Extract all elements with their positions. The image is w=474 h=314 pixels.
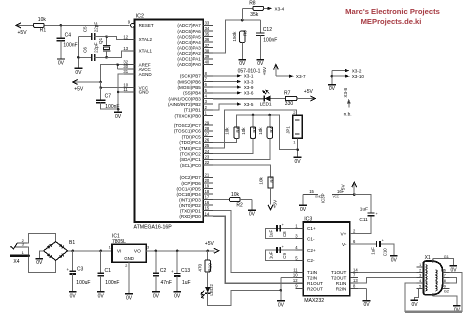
- svg-text:0V: 0V: [98, 293, 105, 299]
- capacitor C6 22pF: [78, 42, 106, 61]
- wire XTAL1 net to pin 13: [107, 51, 124, 58]
- svg-text:C3: C3: [77, 267, 84, 273]
- svg-text:n.b.: n.b.: [344, 111, 352, 117]
- svg-text:+: +: [67, 267, 70, 272]
- svg-text:0V: 0V: [75, 70, 82, 76]
- svg-text:0V: 0V: [278, 303, 285, 309]
- svg-text:22pF: 22pF: [94, 22, 99, 33]
- bridge rectifier B1: [44, 240, 76, 260]
- svg-text:GND: GND: [139, 90, 150, 95]
- wire MAX232 R1IN to X1 pin 3: [358, 278, 417, 284]
- capacitor C12 100nF: [256, 20, 277, 60]
- diode D4 bridge bottom-right: [59, 253, 64, 258]
- svg-text:9: 9: [444, 285, 446, 289]
- svg-text:4: 4: [419, 279, 421, 283]
- svg-text:0V: 0V: [300, 207, 307, 213]
- svg-text:T2OUT: T2OUT: [331, 276, 347, 281]
- svg-text:12: 12: [293, 278, 298, 283]
- svg-text:IC3P: IC3P: [320, 193, 325, 203]
- svg-text:39: 39: [205, 54, 210, 59]
- svg-text:JP1: JP1: [285, 126, 290, 134]
- svg-text:R2IN: R2IN: [336, 287, 347, 292]
- svg-text:C4: C4: [65, 32, 72, 38]
- node reset/C4 junction: [60, 24, 63, 27]
- capacitor C10 1uF (V-): [350, 239, 394, 257]
- svg-text:0V: 0V: [257, 61, 264, 67]
- capacitor C8 1uF (C1+/C1-): [266, 223, 296, 238]
- svg-text:8: 8: [444, 279, 446, 283]
- resistor R4 10k: [213, 115, 274, 159]
- wire X1 pin 5 to ground: [414, 289, 418, 301]
- svg-text:1uF: 1uF: [269, 251, 274, 259]
- svg-text:(TOSC2)PC7: (TOSC2)PC7: [174, 123, 201, 128]
- node XTAL1 net junction: [105, 56, 108, 59]
- svg-text:25: 25: [205, 143, 210, 148]
- svg-text:470: 470: [198, 263, 203, 271]
- svg-text:100uF: 100uF: [76, 280, 90, 286]
- svg-text:0V: 0V: [70, 293, 77, 299]
- svg-text:40: 40: [205, 59, 210, 64]
- wire G2 shield to ground: [433, 290, 457, 306]
- svg-text:V-: V-: [342, 242, 347, 247]
- svg-text:0V: 0V: [239, 61, 246, 67]
- X1 pin stubs and numbers: [417, 263, 450, 289]
- svg-text:R8: R8: [249, 0, 256, 6]
- title Marc's Electronic Projects: [345, 7, 440, 26]
- svg-text:(AIN0/INT2)PB2: (AIN0/INT2)PB2: [168, 102, 201, 107]
- wire X1 pin 4 to bottom ground bus: [405, 283, 417, 312]
- microcontroller IC2 ATMEGA16-16P: [134, 14, 204, 231]
- connector X4 power jack: [10, 238, 28, 265]
- wire PB4 to X3-6: [213, 91, 254, 96]
- svg-text:10k: 10k: [258, 127, 263, 135]
- svg-text:(TXD)PD1: (TXD)PD1: [180, 208, 201, 213]
- svg-text:Marc's Electronic Projects: Marc's Electronic Projects: [345, 7, 440, 16]
- capacitor C2 47nF: [153, 251, 172, 292]
- svg-text:X3-7: X3-7: [296, 74, 306, 79]
- svg-text:R4: R4: [269, 126, 274, 132]
- node X3-4 connector arrow: [268, 6, 285, 11]
- svg-text:10k: 10k: [231, 192, 240, 198]
- ground 0V below C7: [114, 112, 122, 120]
- svg-text:14: 14: [353, 267, 358, 272]
- svg-text:0V: 0V: [295, 159, 302, 165]
- svg-text:10k: 10k: [38, 17, 47, 23]
- svg-text:V+: V+: [341, 231, 347, 236]
- svg-text:(SDA)PC1: (SDA)PC1: [180, 157, 202, 162]
- IC3 right pin stubs with numbers: [350, 229, 358, 289]
- wire T2IN to ground node: [280, 278, 296, 301]
- svg-text:+5V: +5V: [272, 199, 278, 208]
- ground 0V at IC3 pin 15: [299, 205, 307, 213]
- capacitor C13 1uF: [171, 251, 191, 292]
- svg-text:G2: G2: [444, 290, 449, 294]
- svg-text:(TMS)PC3: (TMS)PC3: [179, 146, 201, 151]
- svg-text:14: 14: [205, 211, 210, 216]
- svg-text:XTAL1: XTAL1: [139, 49, 153, 54]
- svg-text:150k: 150k: [232, 31, 237, 42]
- svg-text:X4: X4: [13, 259, 19, 265]
- svg-text:11: 11: [293, 267, 298, 272]
- svg-text:+5V: +5V: [205, 241, 215, 247]
- svg-text:(SCL)PC0: (SCL)PC0: [180, 163, 201, 168]
- node X3-8 not connected: [343, 87, 352, 117]
- svg-text:GND: GND: [124, 256, 134, 261]
- svg-text:+5V: +5V: [304, 89, 314, 95]
- svg-text:B1: B1: [69, 240, 75, 246]
- svg-text:C2: C2: [160, 268, 167, 274]
- wire X4 tip to bridge AC1: [27, 233, 56, 243]
- svg-text:37: 37: [205, 43, 210, 48]
- resistor R1 10k: [34, 17, 130, 33]
- svg-text:(MISO)PB6: (MISO)PB6: [178, 79, 202, 84]
- svg-text:+5V: +5V: [18, 30, 28, 36]
- svg-text:(ADC1)PA1: (ADC1)PA1: [177, 57, 201, 62]
- svg-text:(AIN1/OC0)PB3: (AIN1/OC0)PB3: [168, 96, 201, 101]
- svg-text:0V: 0V: [126, 295, 133, 301]
- svg-text:X1: X1: [425, 255, 431, 261]
- svg-text:1: 1: [109, 246, 111, 250]
- ground 0V below R9: [238, 60, 246, 68]
- svg-text:7805L: 7805L: [112, 239, 126, 245]
- svg-text:2: 2: [419, 268, 421, 272]
- svg-text:36: 36: [205, 37, 210, 42]
- svg-text:VCC: VCC: [333, 194, 340, 198]
- svg-text:7: 7: [444, 274, 446, 278]
- resistor R10 470: [198, 251, 213, 287]
- svg-text:26: 26: [205, 137, 210, 142]
- svg-text:X3-4: X3-4: [275, 6, 285, 11]
- wire IC3 GND pin 15 to ground: [302, 195, 304, 206]
- svg-text:VI: VI: [117, 249, 122, 255]
- svg-text:(OC2)PD7: (OC2)PD7: [180, 175, 202, 180]
- power +5V supply arrow at IC3 VCC: [341, 182, 357, 196]
- svg-text:18: 18: [205, 189, 210, 194]
- svg-text:(OC1B)PD4: (OC1B)PD4: [177, 192, 202, 197]
- resistor R8 35k: [242, 0, 267, 20]
- svg-text:+5V: +5V: [341, 184, 347, 193]
- svg-text:R7: R7: [284, 91, 291, 97]
- svg-text:(TCK)PC2: (TCK)PC2: [180, 152, 201, 157]
- svg-text:24: 24: [205, 149, 210, 154]
- svg-text:+5V: +5V: [262, 66, 268, 75]
- svg-text:10: 10: [293, 273, 298, 278]
- svg-text:33: 33: [205, 21, 210, 26]
- svg-text:(RXD)PD0: (RXD)PD0: [179, 214, 201, 219]
- capacitor C7 100nF: [96, 88, 120, 110]
- capacitor C4 100nF: [57, 25, 78, 59]
- svg-text:1uF: 1uF: [182, 280, 191, 286]
- svg-text:R2: R2: [236, 202, 243, 208]
- svg-text:35k: 35k: [250, 12, 259, 18]
- wire LED2 return to T2IN ground node: [208, 290, 281, 305]
- svg-text:(SS)PB4: (SS)PB4: [183, 91, 201, 96]
- svg-text:10k: 10k: [259, 176, 264, 184]
- svg-text:19: 19: [205, 184, 210, 189]
- svg-text:X3-8: X3-8: [343, 87, 348, 97]
- svg-text:C1+: C1+: [307, 226, 316, 231]
- svg-text:1uF: 1uF: [360, 207, 368, 213]
- IC2 RESET pin 9 inversion bubble: [128, 19, 135, 27]
- wire MAX232 R2IN to ground: [358, 289, 367, 301]
- svg-text:C1: C1: [105, 268, 112, 274]
- svg-text:(TDO)PC4: (TDO)PC4: [179, 140, 201, 145]
- wire regulated +5V rail: [146, 241, 219, 253]
- svg-text:11: 11: [123, 87, 128, 92]
- wire +5V to X3-7: [276, 74, 306, 79]
- svg-text:34: 34: [205, 26, 210, 31]
- svg-text:R9: R9: [243, 30, 248, 36]
- ground 0V below JP1: [294, 157, 302, 165]
- resistor R5 10k: [213, 115, 257, 154]
- svg-text:LED2: LED2: [209, 284, 214, 296]
- svg-text:330: 330: [285, 101, 294, 107]
- ground 0V below C4: [57, 59, 65, 67]
- svg-text:(ADC2)PA2: (ADC2)PA2: [177, 51, 201, 56]
- ground 0V below C1: [97, 292, 105, 300]
- svg-text:T1IN: T1IN: [307, 270, 317, 275]
- svg-text:R6: R6: [236, 126, 241, 132]
- svg-text:(ADC7)PA7: (ADC7)PA7: [177, 23, 201, 28]
- wire bridge minus to ground: [39, 251, 43, 259]
- IC3 left pin stubs with numbers: [293, 223, 303, 288]
- svg-text:5: 5: [419, 285, 421, 289]
- svg-text:10k: 10k: [241, 127, 246, 135]
- resistor R2 10k on INT1: [213, 192, 252, 210]
- svg-text:C8: C8: [282, 231, 287, 237]
- ground 0V at bridge: [35, 259, 43, 267]
- svg-text:1: 1: [419, 263, 421, 267]
- ground 0V below oscillator caps: [75, 68, 83, 76]
- svg-text:C12: C12: [263, 27, 272, 33]
- svg-text:VO: VO: [134, 249, 141, 255]
- wire +5V to VCC pin 10: [99, 82, 124, 89]
- svg-text:(T1)PB1: (T1)PB1: [184, 108, 201, 113]
- svg-text:27: 27: [205, 132, 210, 137]
- svg-text:ATMEGA16-16P: ATMEGA16-16P: [134, 225, 173, 231]
- wire PB6 to X3-3: [213, 79, 254, 84]
- svg-text:0V: 0V: [451, 267, 458, 273]
- svg-text:10k: 10k: [225, 127, 230, 135]
- svg-text:15: 15: [205, 206, 210, 211]
- wire +5V to AREF and AVCC: [99, 63, 124, 83]
- svg-text:X3-2: X3-2: [352, 69, 362, 74]
- svg-text:3: 3: [147, 246, 149, 250]
- svg-text:0V: 0V: [249, 212, 256, 218]
- svg-text:AGND: AGND: [139, 72, 153, 77]
- svg-text:(ADC6)PA6: (ADC6)PA6: [177, 29, 201, 34]
- svg-text:0V: 0V: [412, 302, 419, 308]
- ground 0V at G2: [453, 306, 461, 313]
- voltage regulator IC1 7805L: [109, 234, 150, 294]
- svg-text:1uF: 1uF: [371, 247, 376, 255]
- svg-text:X3-1: X3-1: [244, 74, 254, 79]
- svg-text:R3: R3: [270, 176, 275, 182]
- svg-text:C1-: C1-: [307, 236, 315, 241]
- svg-text:T2IN: T2IN: [307, 276, 317, 281]
- svg-text:MEProjects.de.ki: MEProjects.de.ki: [361, 17, 422, 26]
- svg-text:RESET: RESET: [139, 23, 154, 28]
- capacitor C3 100uF: [67, 251, 91, 292]
- LED LED2: [201, 284, 214, 298]
- svg-text:17: 17: [205, 195, 210, 200]
- ground 0V below C2: [152, 292, 160, 300]
- svg-text:C2-: C2-: [307, 258, 315, 263]
- svg-text:R1: R1: [40, 28, 47, 34]
- wire RXD PD0 to MAX232 R1OUT: [213, 216, 303, 283]
- svg-text:23: 23: [205, 155, 210, 160]
- resistor R9 150k: [232, 30, 248, 60]
- svg-text:20: 20: [205, 178, 210, 183]
- power +5V supply arrow (reset pull-up): [16, 23, 34, 36]
- wire X1 pins 7-8 loopback: [449, 278, 456, 284]
- wire LED1 to R7: [270, 98, 285, 100]
- diode D2 bridge top-right: [59, 244, 64, 249]
- svg-text:X3-3: X3-3: [244, 79, 254, 84]
- ground 0V below C13: [173, 292, 181, 300]
- svg-text:31: 31: [123, 69, 128, 74]
- svg-text:47nF: 47nF: [161, 280, 172, 286]
- resistor R3 10k on SCL: [213, 165, 275, 205]
- svg-text:38: 38: [205, 48, 210, 53]
- wire PB1 to X3-5: [213, 102, 254, 110]
- diode D3 bridge bottom-left: [47, 253, 52, 258]
- svg-text:(SCK)PB7: (SCK)PB7: [180, 74, 201, 79]
- svg-text:XTAL2: XTAL2: [139, 37, 153, 42]
- power +5V supply arrow (AVCC): [73, 80, 101, 93]
- ground 0V below IC1: [125, 294, 133, 302]
- svg-text:R5: R5: [252, 126, 257, 132]
- svg-text:(OC1A)PD5: (OC1A)PD5: [177, 186, 202, 191]
- wire PB7 to X3-1: [213, 74, 254, 79]
- svg-text:(ADC4)PA4: (ADC4)PA4: [177, 40, 201, 45]
- svg-text:R1IN: R1IN: [336, 281, 347, 286]
- power +5V supply arrow below R3: [268, 199, 278, 210]
- svg-text:15: 15: [309, 189, 314, 194]
- node XTAL2 net junction: [105, 35, 108, 38]
- power +5V supply arrow for X3-7: [262, 65, 278, 77]
- wire TXD PD1 to MAX232 T1IN: [213, 211, 303, 273]
- svg-text:X3-9: X3-9: [244, 85, 254, 90]
- diode D1 bridge top-left: [47, 244, 52, 249]
- capacitor C11 1uF (V+): [350, 195, 379, 234]
- svg-text:22: 22: [205, 160, 210, 165]
- ground 0V below C10: [390, 256, 398, 264]
- svg-text:R2OUT: R2OUT: [307, 287, 323, 292]
- svg-text:6: 6: [444, 268, 446, 272]
- svg-text:C10: C10: [383, 248, 388, 257]
- svg-text:Q1: Q1: [98, 37, 103, 44]
- wire PC3 to JP1 pin 2: [213, 110, 297, 148]
- svg-text:100nF: 100nF: [63, 43, 77, 49]
- svg-text:C6: C6: [82, 47, 87, 53]
- svg-text:0V: 0V: [174, 293, 181, 299]
- svg-text:C13: C13: [181, 268, 190, 274]
- svg-text:C2+: C2+: [307, 248, 316, 253]
- jumper JP1: [285, 110, 302, 145]
- ground 0V below R2: [248, 210, 256, 218]
- svg-text:0V: 0V: [364, 302, 371, 308]
- svg-text:(INT1)PD3: (INT1)PD3: [179, 197, 201, 202]
- IC2 left pin stubs with pin numbers: [123, 35, 134, 93]
- svg-text:1uF: 1uF: [269, 230, 274, 238]
- crystal Q1: [98, 37, 110, 58]
- svg-text:16: 16: [205, 200, 210, 205]
- IC2 right pin stubs with pin numbers: [203, 21, 213, 217]
- svg-text:+5V: +5V: [74, 86, 84, 92]
- svg-text:0V: 0V: [329, 86, 336, 92]
- svg-text:35: 35: [205, 32, 210, 37]
- wire G1 shield to ground: [433, 255, 454, 266]
- wire X4 sleeve+switch to bridge AC2: [27, 247, 56, 273]
- ground 0V at G1: [450, 266, 458, 273]
- svg-text:(TDI)PC5: (TDI)PC5: [182, 134, 202, 139]
- wire AGND and GND to ground: [117, 74, 124, 112]
- resistor R6 10k: [213, 126, 240, 142]
- svg-text:(MOSI)PB5: (MOSI)PB5: [178, 85, 202, 90]
- svg-text:IC2: IC2: [136, 14, 144, 20]
- svg-text:R1OUT: R1OUT: [307, 281, 323, 286]
- svg-text:2: 2: [125, 264, 127, 268]
- ground 0V below R2IN: [363, 301, 371, 309]
- svg-text:0V: 0V: [153, 293, 160, 299]
- wire oscillator ground vertical: [77, 37, 80, 69]
- svg-text:(ADC0)PA0: (ADC0)PA0: [177, 62, 201, 67]
- svg-text:X3-10: X3-10: [352, 74, 365, 79]
- svg-text:X3-5: X3-5: [244, 102, 254, 107]
- wire XTAL2 net to pin 12: [107, 37, 124, 40]
- svg-text:(INT0)PD2: (INT0)PD2: [179, 203, 201, 208]
- connector X1 DSUB9: [423, 255, 442, 296]
- svg-text:LED1: LED1: [260, 102, 272, 108]
- svg-text:(TOSC1)PC6: (TOSC1)PC6: [174, 129, 201, 134]
- resistor R7 330: [284, 91, 297, 108]
- svg-text:29: 29: [205, 120, 210, 125]
- capacitor C9 1uF (C2+/C2-): [266, 245, 296, 260]
- capacitor C1 100nF: [98, 251, 120, 292]
- wire unregulated rail bridge to IC1 VI: [68, 250, 112, 253]
- wire PA2 pin 38 to divider node: [213, 19, 260, 53]
- ground 0V below C12: [256, 60, 264, 68]
- ground 0V below C3: [69, 292, 77, 300]
- X1 pin contacts: [425, 265, 437, 291]
- svg-text:13: 13: [353, 278, 358, 283]
- svg-text:100nF: 100nF: [105, 280, 119, 286]
- capacitor C5 22pF: [78, 22, 106, 40]
- wire PB5 to X3-9: [213, 85, 254, 90]
- svg-text:0V: 0V: [58, 61, 65, 67]
- svg-text:(ADC5)PA5: (ADC5)PA5: [177, 34, 201, 39]
- svg-text:R10: R10: [207, 263, 212, 272]
- svg-text:G1: G1: [444, 255, 449, 259]
- svg-text:28: 28: [205, 126, 210, 131]
- svg-text:3: 3: [419, 274, 421, 278]
- svg-text:T1OUT: T1OUT: [331, 270, 347, 275]
- svg-text:+: +: [171, 269, 174, 274]
- svg-text:C11: C11: [359, 217, 368, 223]
- wire X1 pin 6 down right side: [449, 272, 462, 312]
- LED LED1: [260, 90, 272, 107]
- wire resistor rail to JP1 pin 1 and ground: [237, 114, 299, 158]
- svg-text:C9: C9: [282, 253, 287, 259]
- wire MAX232 T1OUT to X1 pin 2: [358, 271, 417, 273]
- ground 0V for X3-2/X3-10: [328, 85, 336, 93]
- svg-text:C5: C5: [82, 26, 87, 32]
- ground 0V below T2IN node: [277, 301, 285, 309]
- power pins IC3P with pin numbers 15/16: [303, 189, 354, 203]
- svg-text:13: 13: [123, 46, 128, 51]
- power +5V supply arrow right of R7: [297, 89, 316, 101]
